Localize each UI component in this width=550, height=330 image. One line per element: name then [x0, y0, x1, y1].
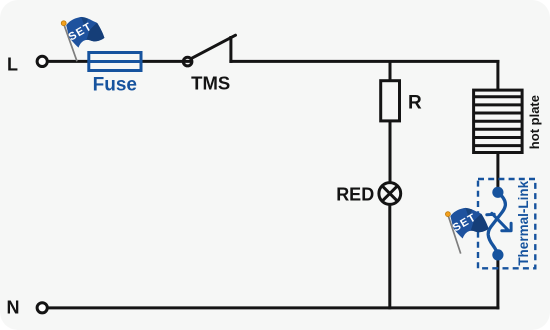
wire hot plate to thermal link	[496, 152, 499, 196]
wire resistor to lamp	[389, 121, 392, 184]
wire thermal link to bottom wire	[496, 252, 499, 309]
wire L to switch (passes under fuse)	[48, 60, 192, 63]
svg-text:Fuse: Fuse	[93, 74, 137, 95]
flag banner	[450, 208, 488, 239]
flag banner fold shading	[471, 214, 489, 233]
wire switch to top-right corner	[229, 60, 499, 63]
flag fold crease	[465, 208, 472, 218]
flag banner fold shading	[87, 23, 105, 42]
switch TMS blade	[191, 35, 236, 59]
thermal link dashed enclosure	[478, 179, 535, 268]
svg-text:TMS: TMS	[191, 73, 230, 94]
svg-text:hot plate: hot plate	[527, 95, 542, 149]
wire down to hot plate	[496, 60, 499, 90]
switch TMS pivot circle	[183, 57, 192, 66]
lamp RED cross	[382, 186, 397, 201]
flag ball	[61, 21, 66, 26]
svg-text:R: R	[408, 93, 422, 114]
flag pole	[64, 25, 77, 62]
terminal L circle	[37, 56, 47, 66]
wire lamp to bottom	[388, 203, 391, 309]
fuse F1 body	[89, 53, 141, 71]
fuse F1 middle line	[89, 60, 141, 63]
flag pole	[448, 216, 461, 254]
thermal link cross bar	[487, 213, 511, 230]
flag ball	[446, 212, 451, 217]
set flag at thermal link	[446, 208, 489, 254]
svg-text:N: N	[7, 298, 20, 318]
svg-text:RED: RED	[336, 184, 374, 204]
flag fold crease	[81, 17, 88, 27]
lamp RED circle	[379, 183, 401, 205]
svg-text:Thermal-Link: Thermal-Link	[516, 180, 531, 265]
svg-text:L: L	[7, 54, 18, 74]
switch TMS fixed contact	[229, 36, 232, 63]
resistor R body	[381, 81, 400, 121]
thermal link top contact dot	[492, 187, 503, 198]
thermal link bottom contact dot	[492, 249, 503, 260]
terminal N circle	[37, 303, 47, 313]
set flag at fuse	[61, 17, 104, 61]
bottom wire N	[48, 306, 499, 309]
thermal link element curve	[488, 192, 505, 255]
flag banner	[66, 17, 104, 48]
heater hot plate body	[474, 90, 522, 152]
wire junction to resistor	[389, 60, 392, 81]
heater hot plate fins	[474, 97, 522, 146]
